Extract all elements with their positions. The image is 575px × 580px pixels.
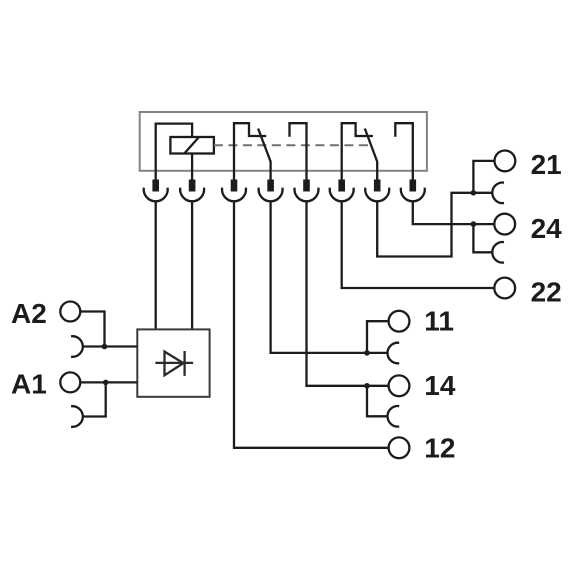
module outline: [140, 112, 427, 171]
socket arc below 24: [492, 242, 504, 263]
wire terminal 6 to circle 22: [342, 201, 495, 288]
diode D1 cathode bar: [183, 351, 185, 376]
terminal circle 21: [495, 151, 516, 172]
wire terminal 1 to diode box: [155, 201, 157, 329]
socket arc A2: [71, 336, 83, 357]
diode D1 line: [155, 362, 193, 364]
svg-text:12: 12: [424, 433, 455, 464]
wire branch to circle 11: [367, 321, 389, 353]
svg-text:A1: A1: [11, 368, 47, 399]
relay coil K1: [170, 137, 214, 154]
wire branch to arc below 14: [367, 386, 388, 417]
svg-text:14: 14: [424, 370, 456, 401]
terminal 8 pin: [410, 180, 417, 192]
terminal 5 socket arc: [295, 188, 319, 202]
wire coil to terminal 2: [191, 154, 193, 180]
wire terminal 5 to circle 14: [307, 201, 389, 385]
wire coil loop from terminal 1: [156, 124, 192, 180]
junction A2: [102, 344, 108, 350]
terminal circle 22: [494, 278, 515, 299]
diode box: [137, 329, 209, 396]
wire branch to circle 21: [473, 161, 494, 193]
terminal 5 pin: [303, 180, 310, 192]
wire terminal 8 to circle 24: [413, 201, 495, 224]
wire branch to arc below 24: [473, 224, 492, 252]
terminal 7 socket arc: [365, 188, 389, 202]
terminal 8 socket arc: [401, 188, 425, 202]
svg-text:21: 21: [531, 149, 562, 180]
contact 1 blade to terminal 4: [258, 129, 271, 180]
svg-text:22: 22: [531, 276, 562, 307]
wire terminal 4 to node 11: [271, 201, 388, 353]
terminal circle 12: [389, 437, 410, 458]
junction node 24: [471, 221, 477, 227]
junction node 21: [471, 190, 477, 196]
wire A1 circle to diode box: [80, 381, 137, 383]
terminal circle 24: [494, 214, 515, 235]
wire terminal 2 to diode box: [191, 201, 193, 329]
terminal 6 socket arc: [330, 188, 354, 202]
diode D1 triangle: [165, 352, 184, 376]
dashed actuator line: [214, 144, 368, 146]
wire terminal 3 to circle 12: [234, 201, 389, 447]
terminal 1 socket arc: [144, 188, 168, 202]
wire A1 branch to arc: [83, 382, 106, 416]
coil slash: [184, 137, 199, 154]
terminal circle 14: [389, 375, 410, 396]
contact 2 NO hook (terminal 8): [395, 123, 413, 179]
terminal 6 pin: [338, 180, 345, 192]
contact 2 common pole (terminal 6): [342, 123, 373, 179]
terminal 3 socket arc: [222, 188, 246, 202]
terminal 2 pin: [189, 180, 196, 192]
terminal circle A2: [60, 302, 80, 322]
terminal circle 11: [389, 311, 410, 332]
junction node 14: [364, 383, 370, 389]
socket arc below 11: [387, 343, 399, 364]
terminal 4 socket arc: [259, 188, 283, 202]
wire A2 arc to diode box: [83, 345, 138, 347]
wire A2 circle to junction: [80, 312, 104, 347]
terminal 1 pin: [152, 180, 159, 192]
terminal 4 pin: [267, 180, 274, 192]
terminal 2 socket arc: [180, 188, 204, 202]
terminal circle A1: [60, 372, 80, 392]
wire terminal 7 to node 21: [377, 193, 492, 257]
junction A1: [103, 380, 109, 386]
svg-text:11: 11: [424, 306, 454, 337]
svg-text:A2: A2: [11, 298, 47, 329]
contact 2 blade to terminal 7: [365, 129, 377, 180]
terminal 7 pin: [374, 180, 381, 192]
contact 1 NO hook (terminal 5): [290, 123, 307, 179]
socket arc below 21: [492, 183, 504, 204]
socket arc A1: [71, 406, 83, 427]
svg-text:24: 24: [531, 213, 563, 244]
socket arc below 14: [387, 406, 399, 427]
junction node 11: [364, 350, 370, 356]
contact 1 common pole (terminal 3): [234, 123, 266, 179]
terminal 3 pin: [231, 180, 238, 192]
